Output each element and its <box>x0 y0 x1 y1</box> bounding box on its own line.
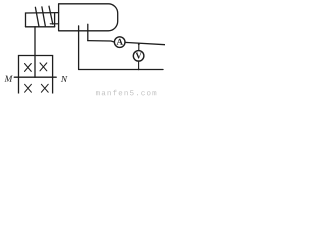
wire: lead 2 to ammeter <box>88 41 114 42</box>
ammeter A <box>114 37 125 48</box>
vacuum tube T (rounded envelope) <box>59 4 118 31</box>
wire: voltmeter to bottom wire <box>138 61 140 70</box>
voltmeter V <box>133 51 144 62</box>
electrode lead 1 (left pin, down to bottom wire) <box>78 26 80 70</box>
wire: bottom return wire <box>79 69 163 71</box>
flux cross X3 <box>25 84 32 92</box>
coil L1 (primary winding on tube neck) <box>26 6 59 27</box>
flux cross X2 <box>40 63 47 71</box>
watermark manfen5.com <box>96 91 100 95</box>
wire: ammeter to right edge <box>125 42 165 44</box>
label N <box>61 76 68 82</box>
junction: top wire / voltmeter stub <box>138 43 140 45</box>
wire: coil to rod MN <box>34 27 36 77</box>
wire: stub down to voltmeter <box>138 44 140 51</box>
junction: bottom wire / voltmeter stub <box>138 69 140 71</box>
electrode lead 2 (right pin) <box>87 24 89 40</box>
label M <box>4 76 12 82</box>
wire: coil middle tap to tube left edge <box>50 23 58 25</box>
rod MN <box>14 76 56 78</box>
magnetic field region box <box>19 56 53 94</box>
flux cross X1 <box>25 64 32 72</box>
flux cross X4 <box>41 84 48 92</box>
